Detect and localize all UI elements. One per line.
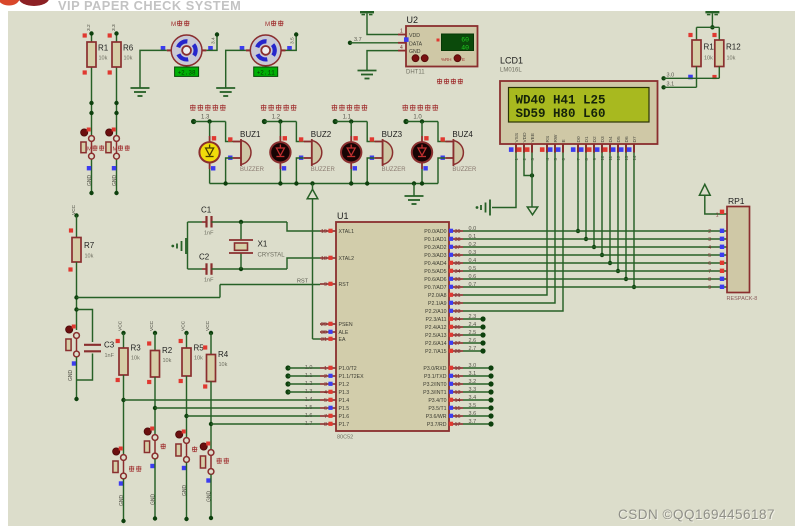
svg-text:22: 22 bbox=[455, 301, 461, 307]
svg-text:2.4: 2.4 bbox=[469, 322, 477, 328]
svg-text:35: 35 bbox=[455, 261, 461, 267]
push button bbox=[144, 427, 166, 469]
svg-text:1.7: 1.7 bbox=[305, 421, 313, 427]
svg-text:1.4: 1.4 bbox=[305, 397, 313, 403]
svg-text:10k: 10k bbox=[163, 358, 172, 364]
svg-text:D7: D7 bbox=[632, 136, 638, 142]
logo mark bbox=[0, 0, 49, 6]
wire net 1.2 bbox=[285, 381, 320, 386]
svg-text:1: 1 bbox=[400, 29, 403, 35]
svg-text:VDD: VDD bbox=[522, 132, 528, 143]
svg-text:10k: 10k bbox=[727, 56, 736, 62]
svg-text:R2: R2 bbox=[162, 346, 173, 355]
svg-text:P3.5/T1: P3.5/T1 bbox=[428, 406, 446, 412]
svg-text:4: 4 bbox=[400, 45, 403, 51]
wire net 3.6 bbox=[463, 413, 494, 418]
svg-text:ALE: ALE bbox=[339, 330, 349, 336]
svg-text:D5: D5 bbox=[616, 136, 622, 142]
svg-text:P1.0/T2: P1.0/T2 bbox=[339, 366, 357, 372]
power terminal down arrow bbox=[527, 207, 537, 215]
wire GND of U2 bbox=[367, 51, 398, 71]
svg-text:8: 8 bbox=[708, 277, 711, 283]
svg-text:R12: R12 bbox=[726, 43, 741, 52]
wire net 1.0 top bbox=[403, 119, 445, 142]
wire M1 left to ground bbox=[140, 50, 167, 88]
svg-text:VEE: VEE bbox=[530, 133, 536, 143]
wire net 2.7 bbox=[463, 348, 486, 353]
svg-text:0.5: 0.5 bbox=[469, 266, 477, 272]
svg-text:2.7: 2.7 bbox=[469, 346, 477, 352]
svg-text:30: 30 bbox=[321, 330, 327, 336]
svg-text:33: 33 bbox=[455, 277, 461, 283]
wire LCD RS to P2.0 bbox=[463, 153, 547, 296]
svg-text:E: E bbox=[462, 57, 465, 62]
microcontroller U1 80C52 bbox=[320, 222, 463, 431]
wire LCD D1 to P0.1 bbox=[584, 153, 588, 242]
ground bbox=[216, 87, 235, 89]
wire LED bottom bbox=[279, 169, 281, 184]
wire net 1.3 top bbox=[191, 119, 233, 142]
svg-text:39: 39 bbox=[455, 229, 461, 235]
buzzer BUZ4 bbox=[441, 130, 478, 173]
resistor R7 bbox=[68, 228, 94, 271]
wire net 2.6 bbox=[463, 340, 486, 345]
svg-text:P2.2/A10: P2.2/A10 bbox=[425, 309, 446, 315]
wire to ground end bbox=[153, 459, 157, 521]
svg-text:3.5: 3.5 bbox=[290, 37, 296, 44]
wire LCD VDD bbox=[524, 153, 534, 178]
resistor R1 bbox=[83, 33, 109, 74]
svg-text:BUZZER: BUZZER bbox=[452, 167, 477, 173]
push button S1 bbox=[81, 128, 105, 171]
svg-text:10k: 10k bbox=[85, 254, 94, 260]
svg-text:2.5: 2.5 bbox=[469, 330, 477, 336]
svg-text:0.7: 0.7 bbox=[469, 282, 477, 288]
svg-text:D1: D1 bbox=[584, 136, 590, 142]
wire P0.4 to RP1 bbox=[463, 262, 727, 264]
svg-text:7: 7 bbox=[708, 269, 711, 275]
svg-text:2: 2 bbox=[708, 229, 711, 235]
capacitor C1 bbox=[201, 206, 214, 237]
resistor R2 bbox=[147, 341, 173, 384]
wire net 1.3 bbox=[285, 389, 320, 394]
svg-text:29: 29 bbox=[321, 322, 327, 328]
ground bbox=[358, 70, 377, 72]
svg-text:3.2: 3.2 bbox=[469, 379, 477, 385]
svg-text:U1: U1 bbox=[337, 211, 349, 221]
svg-text:10k: 10k bbox=[124, 56, 133, 62]
wire M2 left to ground bbox=[226, 50, 246, 88]
svg-text:3.0: 3.0 bbox=[469, 363, 477, 369]
svg-text:R7: R7 bbox=[84, 241, 95, 250]
wire net 3.0 bbox=[463, 365, 494, 370]
wire net 3.2 column bbox=[89, 31, 93, 195]
LED D1 bbox=[199, 136, 219, 171]
svg-text:VCC: VCC bbox=[149, 320, 155, 331]
wire net 3.1 bbox=[661, 67, 696, 90]
wire LED bottom bbox=[421, 169, 423, 184]
svg-text:25: 25 bbox=[455, 325, 461, 331]
wire net 3.7 bbox=[463, 421, 494, 426]
wire VCC to R2 bbox=[153, 331, 157, 351]
svg-text:23: 23 bbox=[455, 309, 461, 315]
svg-text:1.2: 1.2 bbox=[305, 381, 313, 387]
svg-text:P3.2/INT0: P3.2/INT0 bbox=[423, 382, 446, 388]
svg-text:8: 8 bbox=[324, 422, 327, 428]
capacitor C2 bbox=[199, 253, 214, 284]
wire LCD D3 to P0.3 bbox=[600, 153, 604, 258]
wire P0.0 to RP1 bbox=[463, 230, 727, 232]
svg-text:0.3: 0.3 bbox=[469, 250, 477, 256]
svg-text:3.7: 3.7 bbox=[469, 419, 477, 425]
svg-text:P0.7/AD7: P0.7/AD7 bbox=[424, 285, 446, 291]
svg-text:2.3: 2.3 bbox=[469, 314, 477, 320]
svg-text:BUZ2: BUZ2 bbox=[311, 130, 332, 139]
svg-text:3.2: 3.2 bbox=[86, 24, 92, 31]
wire VCC to R3 bbox=[121, 331, 125, 348]
svg-text:P3.6/WR: P3.6/WR bbox=[426, 414, 447, 420]
power terminal up arrow VCC bbox=[307, 184, 318, 199]
svg-text:32: 32 bbox=[455, 285, 461, 291]
svg-text:U2: U2 bbox=[407, 15, 419, 25]
svg-text:1nF: 1nF bbox=[204, 231, 214, 237]
svg-text:P3.4/T0: P3.4/T0 bbox=[428, 398, 446, 404]
svg-text:P2.4/A12: P2.4/A12 bbox=[425, 325, 446, 331]
svg-text:1: 1 bbox=[324, 366, 327, 372]
svg-text:2: 2 bbox=[324, 374, 327, 380]
wire net 3.5 bbox=[463, 405, 494, 410]
wire LED bottom bbox=[209, 169, 211, 184]
svg-text:6: 6 bbox=[708, 261, 711, 267]
svg-text:3: 3 bbox=[324, 382, 327, 388]
svg-text:40: 40 bbox=[461, 44, 469, 51]
svg-text:P3.1/TXD: P3.1/TXD bbox=[424, 374, 447, 380]
svg-text:37: 37 bbox=[455, 245, 461, 251]
ground bbox=[405, 184, 424, 205]
svg-text:13: 13 bbox=[455, 390, 461, 396]
svg-text:P2.0/A8: P2.0/A8 bbox=[428, 293, 447, 299]
wire ground to C1 C2 bbox=[188, 222, 203, 269]
wire P0.5 to RP1 bbox=[463, 270, 727, 272]
svg-text:12: 12 bbox=[455, 382, 461, 388]
resistor R11 bbox=[688, 33, 718, 79]
motor M1 label bbox=[171, 20, 189, 28]
resistor pack RP1 RESPACK-8 bbox=[708, 207, 749, 293]
wire net 3.2 bbox=[463, 381, 494, 386]
wire DATA net 3.7 bbox=[348, 41, 398, 45]
svg-text:P1.6: P1.6 bbox=[339, 414, 350, 420]
wire net 2.3 bbox=[463, 316, 486, 321]
wire net 3.3 column bbox=[114, 31, 118, 195]
svg-text:1.5: 1.5 bbox=[305, 405, 313, 411]
label low-temp alarm bbox=[190, 104, 196, 110]
svg-text:M: M bbox=[113, 147, 118, 153]
svg-text:XTAL1: XTAL1 bbox=[339, 229, 355, 235]
wire net 1.1 top bbox=[333, 119, 375, 142]
push button S2 bbox=[106, 128, 130, 171]
wire LCD D4 to P0.4 bbox=[608, 153, 612, 266]
svg-text:11: 11 bbox=[455, 374, 461, 380]
buzzer BUZ3 bbox=[370, 130, 407, 173]
svg-text:34: 34 bbox=[455, 269, 461, 275]
svg-text:P0.5/AD5: P0.5/AD5 bbox=[424, 269, 446, 275]
resistor R4 bbox=[203, 345, 229, 388]
push button S3 reset bbox=[66, 325, 80, 366]
wire VCC to R4 bbox=[209, 331, 213, 355]
wire net 1.2 top bbox=[262, 119, 304, 142]
svg-text:D0: D0 bbox=[576, 136, 582, 142]
svg-text:RS: RS bbox=[545, 136, 551, 143]
svg-text:P2.7/A15: P2.7/A15 bbox=[425, 349, 446, 355]
svg-text:RST: RST bbox=[297, 279, 309, 285]
svg-text:60: 60 bbox=[461, 37, 469, 44]
svg-text:3.4: 3.4 bbox=[211, 37, 217, 44]
svg-text:4: 4 bbox=[324, 390, 327, 396]
svg-text:R3: R3 bbox=[131, 344, 142, 353]
svg-text:P0.0/AD0: P0.0/AD0 bbox=[424, 229, 446, 235]
svg-text:BUZ4: BUZ4 bbox=[452, 130, 473, 139]
svg-text:2.6: 2.6 bbox=[469, 338, 477, 344]
wire net 3.0 bbox=[661, 67, 719, 81]
svg-text:3: 3 bbox=[708, 237, 711, 243]
svg-text:P1.2: P1.2 bbox=[339, 382, 350, 388]
wire net 3.3 bbox=[463, 389, 494, 394]
svg-text:D4: D4 bbox=[608, 136, 614, 142]
svg-text:3.0: 3.0 bbox=[667, 73, 675, 79]
svg-text:0.6: 0.6 bbox=[469, 274, 477, 280]
svg-text:P2.1/A9: P2.1/A9 bbox=[428, 301, 447, 307]
wire net 3.1 bbox=[463, 373, 494, 378]
svg-text:24: 24 bbox=[455, 317, 461, 323]
buzzer BUZ1 bbox=[228, 130, 265, 173]
wire buzzer bottom bbox=[226, 158, 233, 184]
svg-text:CSDN ©QQ1694456187: CSDN ©QQ1694456187 bbox=[618, 507, 775, 522]
wire to ground end bbox=[121, 479, 125, 523]
svg-text:P3.0/RXD: P3.0/RXD bbox=[423, 366, 446, 372]
svg-text:9: 9 bbox=[324, 282, 327, 288]
wire VCC to R11 R12 bbox=[697, 13, 720, 40]
svg-text:LCD1: LCD1 bbox=[500, 56, 523, 66]
svg-text:P2.6/A14: P2.6/A14 bbox=[425, 341, 446, 347]
svg-text:P0.1/AD1: P0.1/AD1 bbox=[424, 237, 446, 243]
LED D4 bbox=[412, 136, 432, 171]
svg-text:GND: GND bbox=[409, 49, 421, 55]
svg-text:P0.4/AD4: P0.4/AD4 bbox=[424, 261, 446, 267]
svg-text:38: 38 bbox=[455, 237, 461, 243]
svg-text:R4: R4 bbox=[218, 350, 229, 359]
svg-text:9: 9 bbox=[708, 285, 711, 291]
svg-text:VCC: VCC bbox=[181, 320, 187, 331]
svg-text:GND: GND bbox=[112, 175, 118, 187]
svg-text:3.3: 3.3 bbox=[111, 24, 117, 31]
svg-text:RESPACK-8: RESPACK-8 bbox=[727, 296, 758, 302]
wire LCD VSS to ground bbox=[492, 153, 516, 208]
svg-text:EA: EA bbox=[339, 337, 346, 343]
svg-text:26: 26 bbox=[455, 333, 461, 339]
motor M2 bbox=[240, 35, 292, 66]
resistor R5 bbox=[179, 339, 205, 383]
svg-text:C1: C1 bbox=[201, 206, 212, 215]
svg-text:P2.5/A13: P2.5/A13 bbox=[425, 333, 446, 339]
push button bbox=[200, 442, 229, 483]
wire M1 right net 3.4 bbox=[206, 32, 219, 50]
svg-text:DATA: DATA bbox=[409, 41, 423, 47]
wire P0.3 to RP1 bbox=[463, 254, 727, 256]
svg-text:0.1: 0.1 bbox=[469, 234, 477, 240]
svg-text:DHT11: DHT11 bbox=[406, 70, 425, 76]
push button bbox=[113, 447, 142, 486]
power bar symbol bbox=[705, 11, 719, 15]
svg-text:P1.4: P1.4 bbox=[339, 398, 350, 404]
display LCD1 LM016L bbox=[500, 81, 658, 161]
svg-text:27: 27 bbox=[455, 341, 461, 347]
wire LED bottom bbox=[350, 169, 352, 184]
svg-text:RW: RW bbox=[553, 134, 559, 142]
svg-text:1.0: 1.0 bbox=[305, 365, 313, 371]
label high-humidity alarm bbox=[402, 104, 408, 110]
capacitor C3 bbox=[84, 341, 115, 360]
svg-text:1.6: 1.6 bbox=[305, 413, 313, 419]
svg-text:P1.7: P1.7 bbox=[339, 422, 350, 428]
svg-text:80C52: 80C52 bbox=[337, 435, 353, 441]
svg-text:VIP PAPER CHECK SYSTEM: VIP PAPER CHECK SYSTEM bbox=[58, 0, 241, 13]
LED D2 bbox=[270, 136, 290, 171]
wire LCD D0 to P0.0 bbox=[576, 153, 580, 234]
wire LCD VEE to power arrow bbox=[531, 153, 533, 208]
svg-text:1: 1 bbox=[716, 213, 719, 219]
power bar symbol bbox=[360, 11, 374, 15]
svg-text:VCC: VCC bbox=[118, 320, 124, 331]
svg-text:7: 7 bbox=[324, 414, 327, 420]
svg-text:RST: RST bbox=[339, 282, 350, 288]
svg-text:3.1: 3.1 bbox=[667, 82, 675, 88]
svg-text:17: 17 bbox=[455, 422, 461, 428]
push button bbox=[176, 430, 198, 471]
watermark CSDN bbox=[618, 507, 776, 523]
wire LCD D7 to P0.7 bbox=[632, 153, 636, 290]
svg-text:LM016L: LM016L bbox=[500, 68, 522, 74]
svg-text:3.3: 3.3 bbox=[469, 387, 477, 393]
svg-text:P0.3/AD3: P0.3/AD3 bbox=[424, 253, 446, 259]
svg-text:4: 4 bbox=[708, 245, 711, 251]
label high-temp alarm bbox=[261, 104, 267, 110]
wire LCD D6 to P0.6 bbox=[624, 153, 628, 282]
svg-text:R6: R6 bbox=[123, 44, 134, 53]
svg-text:M: M bbox=[87, 147, 92, 153]
svg-text:28: 28 bbox=[455, 349, 461, 355]
svg-text:D3: D3 bbox=[600, 136, 606, 142]
motor M1 bbox=[161, 35, 213, 66]
svg-text:GND: GND bbox=[68, 370, 74, 382]
svg-text:6: 6 bbox=[324, 406, 327, 412]
svg-text:3.5: 3.5 bbox=[469, 403, 477, 409]
svg-text:BUZ1: BUZ1 bbox=[240, 130, 261, 139]
wire buzzer bottom bbox=[296, 158, 303, 184]
svg-text:10k: 10k bbox=[219, 362, 228, 368]
wire P0.1 to RP1 bbox=[463, 238, 727, 240]
svg-text:XTAL2: XTAL2 bbox=[339, 256, 355, 262]
svg-text:P3.7/RD: P3.7/RD bbox=[427, 422, 447, 428]
resistor R12 bbox=[712, 33, 741, 79]
svg-text:1nF: 1nF bbox=[105, 353, 115, 359]
wire reset to end bbox=[74, 357, 78, 401]
svg-text:VSS: VSS bbox=[514, 133, 520, 143]
svg-text:X1: X1 bbox=[258, 240, 268, 249]
wire net 1.7 to U1 bbox=[209, 382, 320, 450]
wire buzzer bottom bbox=[438, 158, 445, 184]
sensor U2 DHT11 bbox=[398, 26, 478, 67]
wire VCC arrow to U1 EA bbox=[313, 199, 321, 339]
resistor R6 bbox=[108, 33, 134, 74]
svg-text:3.7: 3.7 bbox=[354, 37, 362, 43]
svg-text:GND: GND bbox=[87, 175, 93, 187]
wire to ground end bbox=[209, 474, 213, 520]
svg-text:10k: 10k bbox=[131, 356, 140, 362]
svg-text:16: 16 bbox=[455, 414, 461, 420]
svg-text:P0.2/AD2: P0.2/AD2 bbox=[424, 245, 446, 251]
svg-text:31: 31 bbox=[321, 337, 327, 343]
wire C1 to XTAL1 bbox=[212, 220, 321, 231]
motor M2 label bbox=[265, 20, 283, 28]
svg-text:36: 36 bbox=[455, 253, 461, 259]
wire P0.7 to RP1 bbox=[463, 286, 727, 288]
wire VCC to R7 bbox=[74, 213, 78, 237]
svg-text:1.1: 1.1 bbox=[305, 373, 313, 379]
svg-text:0.4: 0.4 bbox=[469, 258, 477, 264]
svg-text:BUZZER: BUZZER bbox=[240, 167, 265, 173]
svg-text:BUZ3: BUZ3 bbox=[382, 130, 403, 139]
svg-text:0.2: 0.2 bbox=[469, 242, 477, 248]
wire buzzer common bus bbox=[210, 181, 438, 185]
svg-text:10k: 10k bbox=[704, 56, 713, 62]
svg-text:D6: D6 bbox=[624, 136, 630, 142]
wire net 1.1 bbox=[285, 373, 320, 378]
svg-text:10k: 10k bbox=[194, 356, 203, 362]
wire C3 branch bbox=[74, 307, 92, 380]
wire buzzer bottom bbox=[367, 158, 374, 184]
ground rotated bbox=[476, 200, 490, 216]
svg-text:15: 15 bbox=[455, 406, 461, 412]
svg-text:10k: 10k bbox=[99, 56, 108, 62]
svg-text:VCC: VCC bbox=[205, 320, 211, 331]
svg-text:1nF: 1nF bbox=[204, 278, 214, 284]
wire net 1.5 to U1 bbox=[153, 377, 320, 435]
wire LCD E to P2.2 bbox=[463, 153, 563, 312]
wire net 1.4 to U1 bbox=[121, 375, 320, 455]
svg-text:0.0: 0.0 bbox=[469, 226, 477, 232]
svg-text:P3.3/INT1: P3.3/INT1 bbox=[423, 390, 446, 396]
svg-text:M: M bbox=[171, 21, 176, 28]
wire net 2.5 bbox=[463, 332, 486, 337]
svg-text:SD59 H80 L60: SD59 H80 L60 bbox=[516, 107, 606, 121]
svg-text:P1.3: P1.3 bbox=[339, 390, 350, 396]
svg-text:R1: R1 bbox=[98, 44, 109, 53]
svg-text:D2: D2 bbox=[592, 136, 598, 142]
svg-text:14: 14 bbox=[455, 398, 461, 404]
svg-text:+2.11: +2.11 bbox=[257, 69, 275, 76]
wire P0.2 to RP1 bbox=[463, 246, 727, 248]
svg-text:C2: C2 bbox=[199, 253, 210, 262]
svg-text:18: 18 bbox=[321, 256, 327, 262]
svg-text:5: 5 bbox=[324, 398, 327, 404]
svg-text:RP1: RP1 bbox=[728, 196, 745, 206]
svg-text:M: M bbox=[265, 21, 270, 28]
svg-text:PSEN: PSEN bbox=[339, 322, 353, 328]
svg-text:CRYSTAL: CRYSTAL bbox=[258, 253, 286, 259]
svg-text:P2.3/A11: P2.3/A11 bbox=[426, 317, 447, 323]
ground rotated bbox=[171, 238, 186, 254]
buzzer BUZ2 bbox=[299, 130, 336, 173]
